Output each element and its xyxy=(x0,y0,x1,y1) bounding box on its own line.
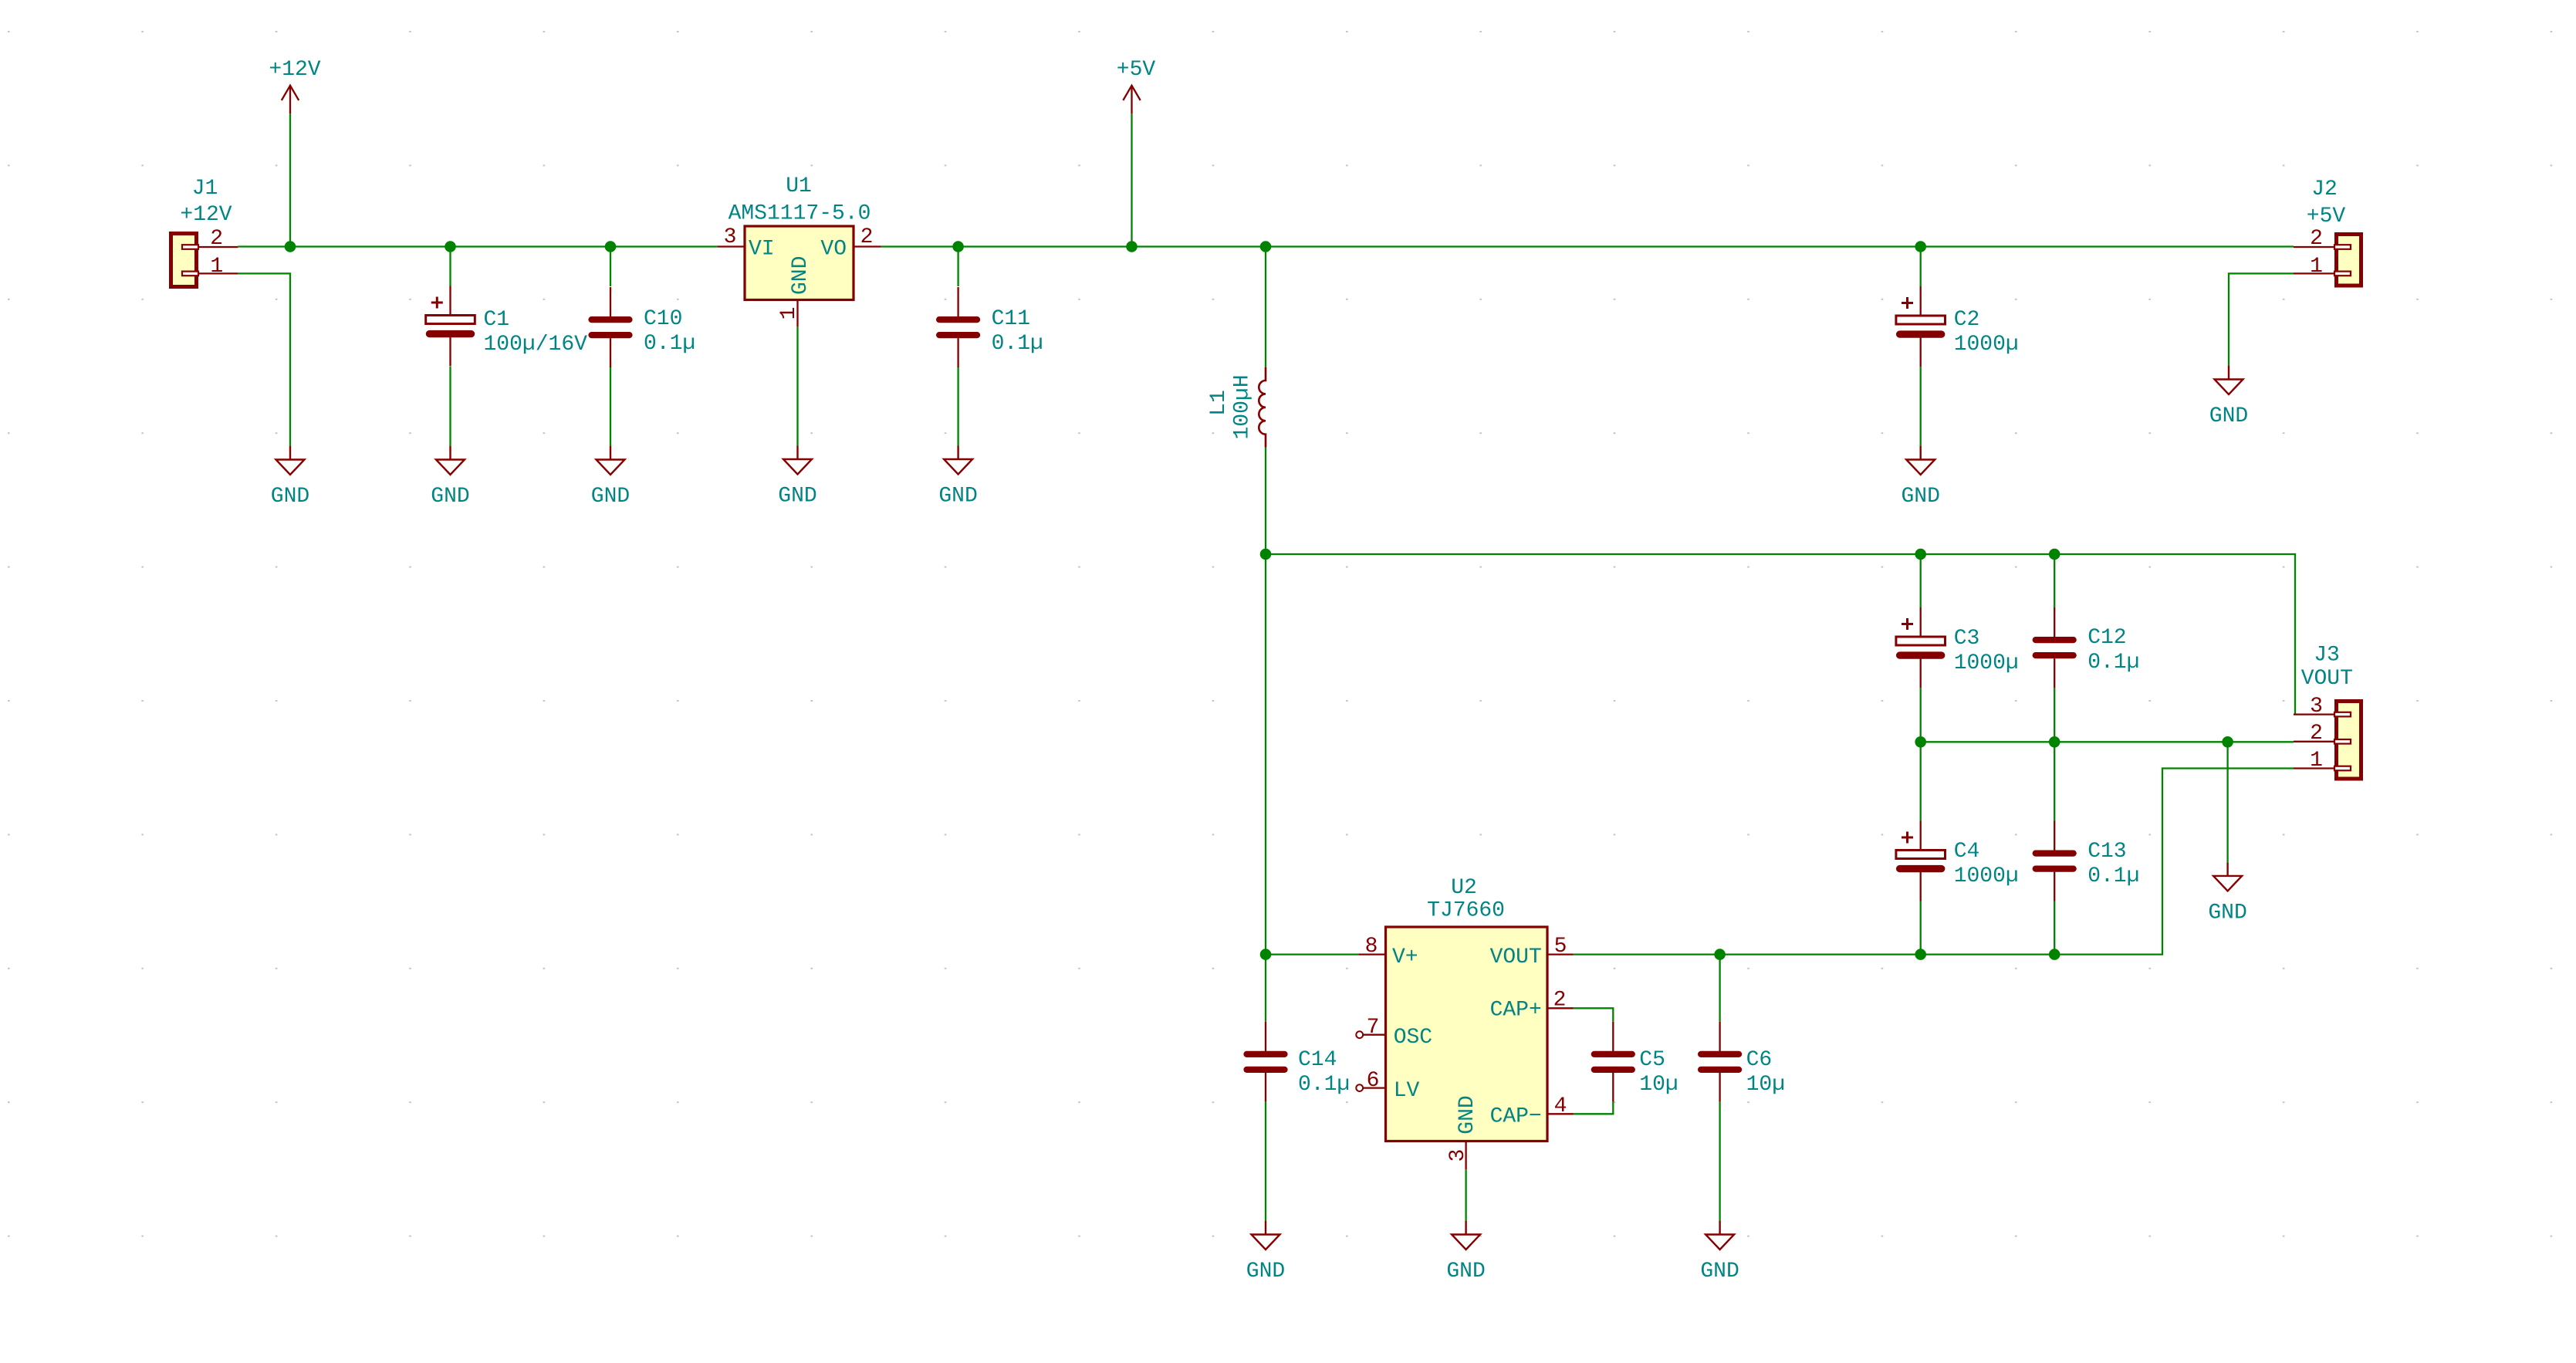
wire C14 bottom to GND xyxy=(1265,1102,1266,1221)
capacitor C10 (0.1µ) xyxy=(592,287,630,367)
capacitor C3 (1000µ) xyxy=(1896,607,1946,688)
svg-text:7: 7 xyxy=(1367,1016,1380,1040)
junction E xyxy=(1126,241,1138,252)
svg-text:LV: LV xyxy=(1394,1079,1420,1103)
connector J2 xyxy=(2337,235,2361,286)
wire U1 GND pin to GND xyxy=(796,326,798,446)
wire C6 top xyxy=(1719,955,1720,1022)
svg-text:100µH: 100µH xyxy=(1231,374,1255,439)
svg-text:TJ7660: TJ7660 xyxy=(1427,899,1505,923)
junction O xyxy=(1714,949,1726,960)
power symbol +5V (PWR2) xyxy=(1123,86,1140,114)
svg-text:CAP−: CAP− xyxy=(1490,1105,1542,1129)
svg-text:C14: C14 xyxy=(1298,1048,1337,1072)
svg-text:0.1µ: 0.1µ xyxy=(992,332,1043,356)
wire C6 bottom to GND xyxy=(1719,1102,1720,1221)
pin J1.2 xyxy=(198,246,238,248)
wire C10 bottom to GND xyxy=(610,367,611,446)
wire C13 bottom to VOUT bus xyxy=(2054,901,2055,955)
junction B xyxy=(445,241,456,252)
wire C4 top xyxy=(1920,742,1922,820)
svg-text:GND: GND xyxy=(271,485,309,509)
svg-text:C1: C1 xyxy=(484,308,510,332)
junction I xyxy=(1915,549,1926,560)
junction A xyxy=(285,241,296,252)
wire C12 top xyxy=(2054,554,2055,607)
wire C4 bottom to VOUT bus xyxy=(1920,901,1922,955)
svg-text:GND: GND xyxy=(938,485,977,509)
svg-text:+5V: +5V xyxy=(2307,205,2346,228)
wire C11 bottom to GND xyxy=(957,367,958,446)
pin J2.1 xyxy=(2294,272,2334,274)
svg-text:C6: C6 xyxy=(1746,1048,1773,1072)
ground GND C1 xyxy=(436,446,465,475)
wire C13 top xyxy=(2054,742,2055,820)
capacitor C4 (1000µ) xyxy=(1896,821,1946,901)
wire U2 VOUT bus to J3.1 xyxy=(1574,769,2294,955)
svg-text:C2: C2 xyxy=(1954,308,1980,332)
junction P xyxy=(1915,949,1926,960)
svg-text:2: 2 xyxy=(860,225,874,249)
svg-text:GND: GND xyxy=(2209,404,2248,428)
svg-text:+5V: +5V xyxy=(1117,58,1156,82)
capacitor C5 (10µ) xyxy=(1594,1022,1632,1102)
capacitor C14 (0.1µ) xyxy=(1247,1022,1285,1102)
svg-text:1: 1 xyxy=(777,307,801,320)
svg-text:1: 1 xyxy=(210,255,223,279)
svg-text:2: 2 xyxy=(210,227,223,251)
ground GND J1 xyxy=(276,446,305,475)
svg-text:L1: L1 xyxy=(1207,390,1231,416)
svg-text:10µ: 10µ xyxy=(1746,1073,1785,1097)
svg-text:GND: GND xyxy=(1446,1260,1485,1284)
wire C1 bottom to GND xyxy=(449,367,451,446)
wire C2 bottom to GND xyxy=(1920,367,1922,446)
svg-text:VI: VI xyxy=(749,238,775,262)
junction Q xyxy=(2049,949,2060,960)
wire J1 pin1 to GND xyxy=(238,273,290,446)
svg-text:C10: C10 xyxy=(644,307,682,331)
inductor L1 100uH xyxy=(1259,367,1266,448)
svg-text:0.1µ: 0.1µ xyxy=(2088,864,2139,888)
svg-text:2: 2 xyxy=(1553,989,1567,1013)
svg-text:AMS1117-5.0: AMS1117-5.0 xyxy=(729,201,871,225)
wire +5V bus U1.VO to J2.2 xyxy=(881,245,2294,247)
svg-text:GND: GND xyxy=(591,485,630,509)
pin U1.1 GND xyxy=(796,300,798,327)
svg-text:2: 2 xyxy=(2310,722,2323,746)
svg-text:J3: J3 xyxy=(2314,644,2340,668)
svg-text:0.1µ: 0.1µ xyxy=(2088,651,2139,675)
svg-text:VOUT: VOUT xyxy=(2301,667,2353,691)
wire U2 CAP- to C5 bottom xyxy=(1574,1102,1613,1114)
ground GND U1 xyxy=(783,446,812,475)
svg-text:GND: GND xyxy=(1700,1260,1739,1284)
wire U2 pin3 to GND xyxy=(1465,1169,1466,1221)
capacitor C1 (100µ/16V) xyxy=(426,286,475,367)
svg-text:J2: J2 xyxy=(2311,178,2338,201)
pin U2.6 LV (inverted) xyxy=(1356,1084,1363,1091)
wire V+ node to U2 pin8 xyxy=(1266,953,1358,955)
capacitor C12 (0.1µ) xyxy=(2036,607,2074,688)
wire +12V bus J1.2 to U1.VI xyxy=(238,245,717,247)
wire V+ node down to C14 xyxy=(1265,955,1266,1022)
wire +5V symbol to bus xyxy=(1131,113,1132,246)
ground GND C6 xyxy=(1706,1221,1734,1250)
junction L xyxy=(2049,736,2060,748)
wire C3 bottom to mid bus xyxy=(1920,688,1922,742)
svg-text:GND: GND xyxy=(1901,485,1939,509)
svg-text:CAP+: CAP+ xyxy=(1490,999,1542,1023)
svg-text:C13: C13 xyxy=(2088,840,2126,864)
svg-text:+12V: +12V xyxy=(180,203,232,227)
wire second bus to J3.3 xyxy=(1266,554,2295,715)
junction M xyxy=(2222,736,2233,748)
pin U1.3 VI xyxy=(718,245,745,247)
svg-text:1000µ: 1000µ xyxy=(1954,651,2019,675)
svg-text:3: 3 xyxy=(1446,1149,1470,1162)
svg-text:C12: C12 xyxy=(2088,626,2126,650)
svg-text:100µ/16V: 100µ/16V xyxy=(484,333,588,357)
svg-text:+12V: +12V xyxy=(269,58,320,82)
svg-text:0.1µ: 0.1µ xyxy=(644,332,695,356)
wire mid bus to J3.2 xyxy=(1921,741,2294,742)
ground GND C11 xyxy=(944,446,972,475)
ground GND C14 xyxy=(1252,1221,1280,1250)
svg-text:GND: GND xyxy=(431,485,469,509)
pin U2.5 VOUT xyxy=(1547,953,1574,955)
wire U2 CAP+ to C5 xyxy=(1574,1008,1613,1022)
svg-text:1: 1 xyxy=(2310,749,2323,773)
wire C2 top xyxy=(1920,247,1922,287)
pin U2.7 OSC (inverted) xyxy=(1356,1031,1363,1038)
svg-text:C3: C3 xyxy=(1954,627,1980,651)
svg-text:0.1µ: 0.1µ xyxy=(1298,1073,1350,1097)
capacitor C6 (10µ) xyxy=(1701,1022,1739,1102)
wire J2 pin1 to GND xyxy=(2229,273,2294,366)
svg-text:GND: GND xyxy=(789,256,813,295)
ground GND J2 xyxy=(2215,366,2243,394)
junction J xyxy=(2049,549,2060,560)
wire L1 node down to U2 V+ node xyxy=(1265,554,1266,955)
pin J1.1 xyxy=(198,272,238,274)
junction G xyxy=(1915,241,1926,252)
ground GND J3 xyxy=(2213,862,2242,891)
junction D xyxy=(952,241,964,252)
ground GND C2 xyxy=(1906,446,1935,475)
junction H xyxy=(1260,549,1272,560)
svg-text:10µ: 10µ xyxy=(1639,1073,1678,1097)
wire +12V symbol to bus xyxy=(289,113,291,246)
svg-text:U2: U2 xyxy=(1451,876,1477,900)
svg-text:GND: GND xyxy=(1455,1095,1479,1134)
svg-text:4: 4 xyxy=(1554,1094,1567,1118)
pin J3.1 xyxy=(2294,767,2334,769)
pin J3.2 xyxy=(2294,741,2334,742)
svg-text:8: 8 xyxy=(1365,935,1378,959)
svg-text:3: 3 xyxy=(724,225,737,249)
pin J2.2 xyxy=(2294,246,2334,248)
svg-text:GND: GND xyxy=(2208,901,2246,925)
wire bus to L1 top xyxy=(1265,247,1266,367)
wire C1 top xyxy=(449,247,451,287)
svg-text:1000µ: 1000µ xyxy=(1954,864,2019,888)
pin J3.3 xyxy=(2294,713,2334,715)
capacitor C11 (0.1µ) xyxy=(939,287,977,367)
pin U2.8 V+ xyxy=(1358,953,1385,955)
svg-text:2: 2 xyxy=(2310,227,2323,251)
svg-text:5: 5 xyxy=(1554,935,1567,959)
svg-text:V+: V+ xyxy=(1392,945,1418,969)
connector J1 xyxy=(171,234,197,287)
svg-text:GND: GND xyxy=(778,485,816,509)
capacitor C13 (0.1µ) xyxy=(2036,821,2074,901)
svg-text:U1: U1 xyxy=(786,174,812,198)
svg-text:6: 6 xyxy=(1367,1069,1380,1093)
ground GND U2 xyxy=(1452,1221,1480,1250)
wire mid bus GND tap xyxy=(2226,742,2228,862)
svg-text:OSC: OSC xyxy=(1394,1026,1432,1050)
pin U1.2 VO xyxy=(854,245,881,247)
junction K xyxy=(1915,736,1926,748)
junction F xyxy=(1260,241,1272,252)
junction C xyxy=(605,241,617,252)
pin U2.3 GND xyxy=(1465,1141,1466,1170)
power symbol +12V (PWR1) xyxy=(282,86,299,114)
wire C11 top xyxy=(957,247,958,287)
junction N xyxy=(1260,949,1272,960)
pin U2.4 CAP- xyxy=(1547,1113,1574,1114)
svg-text:VO: VO xyxy=(820,238,847,262)
pin U2.2 CAP+ xyxy=(1547,1007,1574,1009)
svg-text:J1: J1 xyxy=(192,177,218,201)
wire C3 top xyxy=(1920,554,1922,607)
ground GND C10 xyxy=(597,446,625,475)
wire C10 top xyxy=(610,247,611,287)
svg-text:1000µ: 1000µ xyxy=(1954,333,2019,357)
svg-text:1: 1 xyxy=(2310,255,2323,279)
IC U1 AMS1117-5.0 xyxy=(745,226,854,300)
IC U2 TJ7660 xyxy=(1386,927,1548,1141)
svg-text:VOUT: VOUT xyxy=(1490,945,1542,969)
wire C12 bottom to mid bus xyxy=(2054,688,2055,742)
svg-text:3: 3 xyxy=(2310,695,2323,719)
svg-text:C4: C4 xyxy=(1954,840,1980,864)
connector J3 xyxy=(2337,702,2361,780)
capacitor C2 (1000µ) xyxy=(1896,286,1946,367)
wire L1 bottom to node xyxy=(1265,448,1266,554)
svg-text:C11: C11 xyxy=(992,307,1030,331)
svg-text:GND: GND xyxy=(1246,1260,1285,1284)
svg-text:C5: C5 xyxy=(1639,1048,1665,1072)
